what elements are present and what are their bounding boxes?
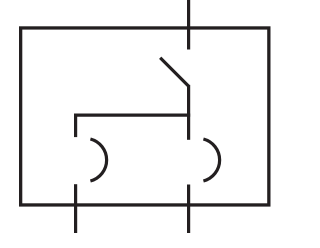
wire: left upper stem <box>74 114 77 138</box>
socket contact (right, female) <box>203 139 219 181</box>
switch pivot bar / right contact stem <box>187 85 190 140</box>
wire: horizontal link <box>74 113 190 116</box>
switch S1 moving arm (make contact, open) <box>160 58 189 87</box>
socket contact (left, female) <box>90 139 106 181</box>
top terminal wire <box>187 0 190 50</box>
bottom terminal wire (left) <box>74 184 77 233</box>
enclosure box <box>21 28 269 205</box>
bottom terminal wire (right) <box>187 185 190 234</box>
